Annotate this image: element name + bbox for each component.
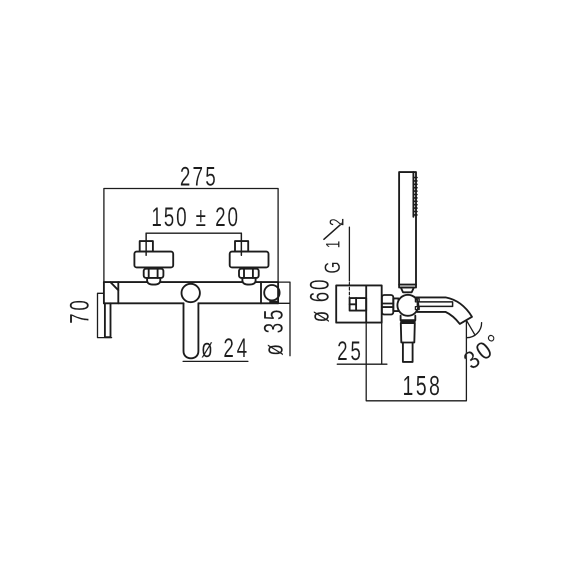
- front view: right S-union escutcheon: [230, 252, 269, 268]
- front view: left union centerline: [145, 233, 147, 255]
- side view: collar below valve: [401, 316, 416, 321]
- front view: handle end cap: [110, 282, 118, 303]
- side view: connector: [393, 298, 398, 311]
- front view: shower holder square: [260, 282, 262, 303]
- side view: spout: [415, 297, 472, 324]
- svg-text:ø 35: ø 35: [258, 307, 288, 356]
- front view: left S-union wall stub: [140, 241, 153, 252]
- svg-text:ø 60: ø 60: [304, 278, 334, 323]
- front view: ball joint circle: [182, 284, 200, 302]
- dimension ø24 leader: [183, 360, 248, 362]
- svg-text:G: G: [321, 262, 345, 274]
- dimension 25: [337, 323, 387, 365]
- side view: G1/2 stub: [350, 298, 367, 311]
- side view: wall plate outer: [336, 285, 382, 322]
- front view: right S-union wall stub: [235, 241, 248, 252]
- front view: left S-union hex nut: [144, 269, 164, 278]
- front view: shower holder circle: [264, 285, 279, 300]
- svg-text:150 ± 20: 150 ± 20: [151, 202, 240, 232]
- angle 30 degree arc: [467, 323, 482, 338]
- dimension ø35: [278, 282, 290, 356]
- svg-text:70: 70: [64, 297, 94, 323]
- svg-text:25: 25: [337, 336, 363, 366]
- front view: holder clamp marks: [270, 301, 277, 303]
- front view: right S-union hex nut: [239, 269, 259, 278]
- svg-text:158: 158: [402, 371, 442, 402]
- angle 30 degree line: [467, 321, 475, 334]
- svg-text:2: 2: [325, 218, 348, 226]
- side view: wall plate front face line: [365, 285, 367, 322]
- side view: shower base band: [399, 285, 416, 288]
- dimension 158: [366, 321, 466, 401]
- front view: left boss arc: [147, 278, 160, 285]
- svg-text:ø 24: ø 24: [201, 333, 250, 363]
- side view: handle taper block: [401, 322, 415, 343]
- front view: lever handle down: [105, 303, 111, 337]
- side view: handle grip: [403, 343, 413, 362]
- side view: hex nut: [382, 295, 393, 315]
- svg-text:1: 1: [322, 241, 344, 249]
- front view: right boss arc: [242, 278, 255, 285]
- svg-text:275: 275: [180, 161, 218, 191]
- dimension 275: [104, 189, 278, 283]
- dimension 150±20: [146, 233, 241, 255]
- side view: shower mount trapezoid: [401, 288, 414, 293]
- G1/2 dashed centerline: [348, 283, 350, 299]
- dimension 70: [98, 293, 112, 337]
- side view: spray nozzle dashes: [414, 178, 417, 215]
- front view: mixer body: [104, 282, 278, 303]
- front view: right union centerline: [240, 233, 242, 255]
- front view: left S-union escutcheon: [134, 252, 173, 268]
- front view: spout tube with round cap: [184, 303, 199, 358]
- label G 1/2 (rotated) with leader: [321, 218, 348, 273]
- side view: hand shower cylinder: [399, 172, 416, 285]
- side view: valve body circle: [397, 295, 418, 316]
